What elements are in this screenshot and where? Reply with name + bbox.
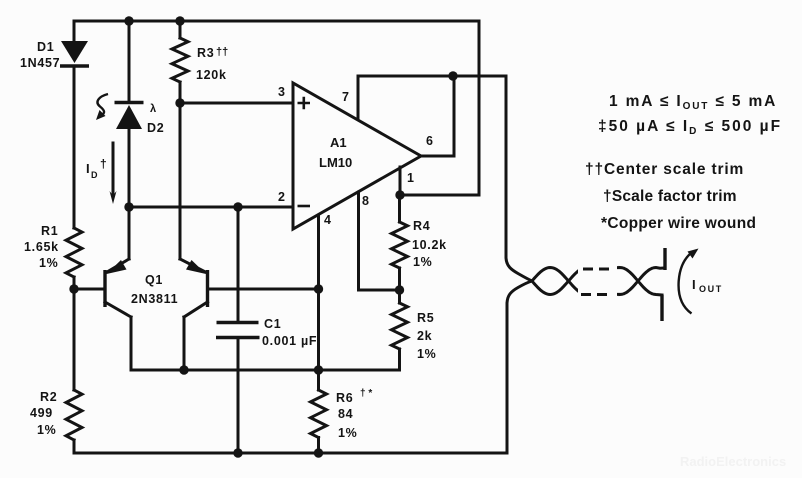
svg-text:R2: R2 [40, 390, 57, 404]
svg-text:2k: 2k [417, 329, 432, 343]
svg-text:D2: D2 [147, 121, 164, 135]
svg-text:6: 6 [426, 134, 434, 148]
svg-text:1%: 1% [413, 255, 432, 269]
svg-text:A1: A1 [330, 135, 347, 150]
svg-text:1.65k: 1.65k [24, 240, 59, 254]
svg-text:1: 1 [407, 171, 415, 185]
svg-text:*Copper wire wound: *Copper wire wound [601, 215, 756, 232]
svg-text:R5: R5 [417, 311, 434, 325]
svg-text:†Scale factor trim: †Scale factor trim [603, 188, 737, 205]
svg-text:4: 4 [324, 213, 332, 227]
svg-text:1%: 1% [338, 426, 357, 440]
svg-text:R1: R1 [41, 224, 58, 238]
svg-text:1N457: 1N457 [20, 56, 60, 70]
svg-text:†: † [100, 157, 107, 171]
svg-text:1%: 1% [39, 256, 58, 270]
svg-text:1%: 1% [37, 423, 56, 437]
svg-text:††Center scale trim: ††Center scale trim [585, 161, 744, 178]
svg-text:1%: 1% [417, 347, 436, 361]
svg-text:7: 7 [342, 90, 350, 104]
svg-text:LM10: LM10 [319, 155, 352, 170]
svg-text:OUT: OUT [699, 284, 723, 294]
svg-text:I: I [692, 277, 696, 292]
svg-text:2: 2 [278, 190, 286, 204]
svg-text:2N3811: 2N3811 [131, 292, 178, 306]
svg-text:10.2k: 10.2k [412, 238, 447, 252]
svg-text:R3: R3 [197, 46, 214, 60]
svg-text:84: 84 [338, 407, 353, 421]
svg-text:D: D [91, 170, 98, 180]
svg-text:0.001 µF: 0.001 µF [262, 334, 317, 348]
svg-text:Q1: Q1 [145, 273, 163, 287]
svg-text:D1: D1 [37, 40, 54, 54]
svg-text:499: 499 [30, 406, 53, 420]
svg-text:R6: R6 [336, 391, 353, 405]
svg-text:R4: R4 [413, 219, 430, 233]
svg-text:λ: λ [150, 103, 156, 115]
svg-text:† *: † * [360, 388, 372, 399]
svg-text:RadioElectronics: RadioElectronics [680, 454, 786, 469]
svg-text:C1: C1 [264, 317, 281, 331]
svg-text:120k: 120k [196, 68, 227, 82]
svg-text:3: 3 [278, 85, 286, 99]
svg-text:I: I [86, 161, 90, 176]
svg-text:8: 8 [362, 194, 370, 208]
svg-text:††: †† [216, 46, 228, 58]
